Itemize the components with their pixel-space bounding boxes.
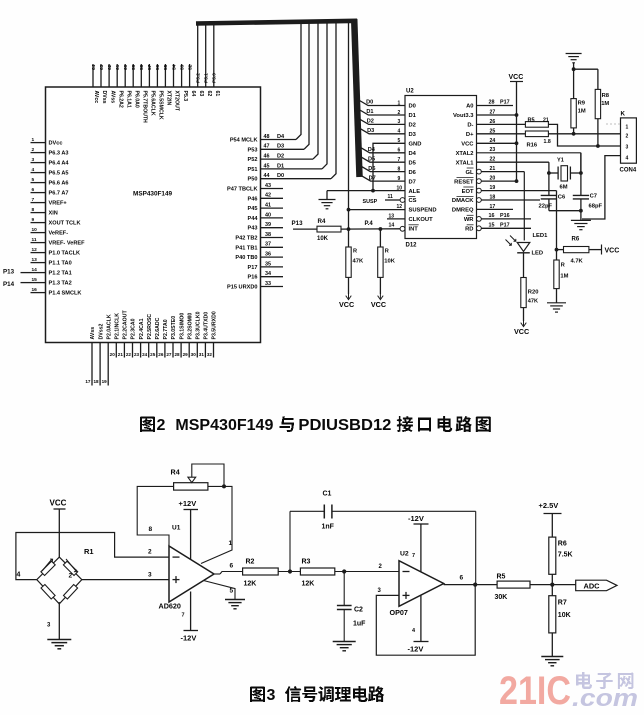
- svg-text:P1.0 TACLK: P1.0 TACLK: [49, 251, 81, 257]
- resistor R8 1M: [595, 89, 610, 118]
- svg-text:3: 3: [626, 145, 629, 151]
- svg-text:U2: U2: [400, 551, 409, 558]
- svg-text:MSP430F149: MSP430F149: [133, 191, 173, 198]
- svg-text:1nF: 1nF: [322, 524, 335, 531]
- svg-text:AVss: AVss: [90, 327, 96, 340]
- svg-text:6: 6: [32, 187, 35, 193]
- resistor R9 1M: [571, 99, 586, 128]
- resistor 47K pull: [346, 247, 364, 294]
- svg-text:54: 54: [171, 64, 177, 70]
- svg-text:VREF+: VREF+: [49, 201, 68, 207]
- svg-text:21: 21: [490, 166, 496, 172]
- svg-text:10K: 10K: [384, 259, 395, 265]
- svg-text:D+: D+: [466, 132, 474, 138]
- svg-text:R4: R4: [318, 218, 326, 225]
- svg-text:P52: P52: [248, 157, 258, 163]
- svg-text:5: 5: [398, 138, 401, 144]
- power -12V OP07 bottom: [408, 595, 429, 654]
- svg-text:P17: P17: [500, 223, 510, 229]
- svg-text:2: 2: [32, 147, 35, 153]
- power VCC right of R6: [589, 245, 619, 255]
- svg-text:R9: R9: [578, 101, 586, 107]
- potentiometer R4 gain: [171, 464, 227, 490]
- node P14 label left margin: [3, 281, 31, 288]
- svg-text:22: 22: [490, 157, 496, 163]
- wire bridge bottom to ground: [58, 602, 60, 639]
- svg-text:18: 18: [490, 195, 496, 201]
- capacitor C7 68pF: [573, 153, 603, 211]
- svg-text:13: 13: [32, 257, 38, 263]
- svg-text:P42 TB2: P42 TB2: [235, 236, 257, 242]
- U2 data stubs D0-D7 from bus: [356, 99, 405, 182]
- ground top right: [566, 54, 582, 70]
- svg-text:AVcc: AVcc: [93, 91, 99, 104]
- power VCC below 10K: [371, 294, 386, 309]
- svg-text:13: 13: [389, 213, 395, 219]
- U2 INT pin bubble: [400, 226, 405, 231]
- svg-text:D2: D2: [367, 119, 374, 125]
- svg-text:P2.4CA1: P2.4CA1: [139, 318, 145, 339]
- svg-text:WR: WR: [464, 217, 474, 223]
- svg-text:P54 MCLK: P54 MCLK: [230, 138, 258, 144]
- svg-text:DMREQ: DMREQ: [452, 208, 474, 214]
- svg-text:1.8: 1.8: [544, 139, 551, 145]
- svg-text:41: 41: [265, 203, 271, 209]
- resistor 10K pull: [378, 229, 396, 294]
- svg-text:VCC: VCC: [605, 248, 620, 255]
- svg-text:VCC: VCC: [371, 300, 386, 309]
- svg-text:D5: D5: [409, 160, 417, 166]
- caption figure 2: [140, 416, 491, 434]
- svg-text:24: 24: [142, 352, 148, 357]
- svg-text:EOT: EOT: [462, 189, 474, 195]
- svg-text:GND: GND: [409, 142, 422, 148]
- svg-text:6: 6: [398, 148, 401, 154]
- svg-text:K: K: [621, 111, 626, 118]
- svg-text:D7: D7: [369, 175, 376, 181]
- svg-text:R6: R6: [572, 237, 580, 243]
- svg-text:P45: P45: [248, 206, 258, 212]
- svg-text:P5.1: P5.1: [204, 73, 210, 83]
- svg-text:23: 23: [490, 147, 496, 153]
- power VCC below 47K: [339, 294, 354, 309]
- svg-text:14: 14: [32, 267, 38, 273]
- ground at ALE: [319, 200, 336, 209]
- svg-text:P6.2A2: P6.2A2: [117, 91, 123, 108]
- svg-text:2: 2: [398, 110, 401, 116]
- svg-text:A0: A0: [466, 104, 473, 110]
- U1 right pin name labels: [227, 138, 258, 291]
- svg-text:R16: R16: [527, 143, 538, 149]
- svg-text:ALE: ALE: [409, 189, 421, 195]
- svg-text:P5.3: P5.3: [182, 91, 188, 102]
- LED D1: [506, 233, 549, 257]
- svg-text:D3: D3: [367, 128, 374, 134]
- svg-text:21: 21: [118, 352, 124, 357]
- ground AD620 pin5: [225, 600, 245, 609]
- svg-text:D5: D5: [368, 156, 375, 162]
- svg-text:16: 16: [489, 213, 495, 219]
- svg-text:P6.7 A7: P6.7 A7: [49, 191, 69, 197]
- svg-text:62: 62: [107, 64, 113, 70]
- caption figure 3: [250, 686, 384, 704]
- resistor R16 series: [525, 131, 550, 149]
- svg-text:D3: D3: [277, 144, 284, 150]
- power -12V OP07 top: [408, 514, 429, 572]
- svg-text:-12V: -12V: [408, 645, 424, 654]
- svg-text:P2.1INCLK: P2.1INCLK: [115, 313, 121, 340]
- svg-text:22: 22: [126, 352, 132, 357]
- svg-text:19: 19: [490, 185, 496, 191]
- wire D+ row: [477, 128, 526, 134]
- svg-text:P51: P51: [248, 167, 258, 173]
- svg-text:17: 17: [490, 204, 496, 210]
- svg-text:VCC: VCC: [461, 142, 474, 148]
- svg-text:4: 4: [32, 167, 35, 173]
- U1 top pins with numbers: [91, 23, 214, 87]
- svg-text:R8: R8: [602, 93, 610, 99]
- svg-text:D6: D6: [368, 166, 375, 172]
- svg-text:64: 64: [190, 91, 196, 97]
- svg-text:-12V: -12V: [408, 514, 424, 523]
- svg-text:P1.2 TA1: P1.2 TA1: [49, 271, 72, 277]
- svg-text:26: 26: [490, 119, 496, 125]
- svg-text:P3.2SOMI0: P3.2SOMI0: [187, 313, 193, 340]
- svg-text:68pF: 68pF: [589, 204, 603, 210]
- svg-text:VCC: VCC: [50, 499, 67, 508]
- U1 right pins stubs 43-33: [261, 183, 284, 287]
- svg-text:P5.0: P5.0: [212, 73, 218, 83]
- svg-text:R6: R6: [558, 541, 567, 548]
- U1 left pin name labels: [49, 141, 86, 297]
- svg-text:9: 9: [398, 176, 401, 182]
- svg-text:RD: RD: [465, 227, 473, 233]
- wire bridge right to AD620 pin3: [82, 579, 169, 581]
- svg-text:26: 26: [158, 352, 164, 357]
- U1 top tall pin labels: [196, 73, 218, 83]
- svg-text:D1: D1: [366, 109, 373, 115]
- wire R9 to D+ line: [573, 128, 575, 134]
- svg-text:DMACK: DMACK: [452, 198, 474, 204]
- svg-text:XT2OUT: XT2OUT: [174, 91, 180, 112]
- wire Vout3.3 row: [477, 110, 519, 117]
- svg-text:14: 14: [389, 222, 395, 228]
- svg-text:P17: P17: [500, 100, 510, 106]
- usb chip U2 PDIUSBD12: [405, 89, 477, 249]
- svg-text:DVcc: DVcc: [49, 141, 63, 147]
- bus vertical thick band: [354, 19, 359, 177]
- svg-text:30: 30: [191, 352, 197, 357]
- svg-text:P6.3 A3: P6.3 A3: [49, 151, 69, 157]
- wire R2 to R3 junction: [278, 569, 300, 573]
- svg-text:8: 8: [32, 207, 35, 213]
- svg-text:58: 58: [139, 64, 145, 70]
- resistor R6 4.7K: [555, 237, 589, 265]
- svg-text:48: 48: [264, 134, 270, 140]
- svg-text:36: 36: [265, 252, 271, 258]
- svg-text:11: 11: [388, 194, 394, 200]
- svg-text:XOUT TCLK: XOUT TCLK: [49, 221, 81, 227]
- svg-text:35: 35: [265, 261, 271, 267]
- wire EOT row to R6 node: [477, 185, 557, 250]
- wire OP07 output: [444, 575, 497, 587]
- wire GL row to LED: [477, 166, 525, 240]
- wire SUSPEND row: [349, 209, 406, 211]
- svg-text:U1: U1: [172, 525, 181, 532]
- svg-text:30K: 30K: [495, 594, 508, 601]
- svg-text:46: 46: [264, 154, 270, 160]
- svg-text:40: 40: [265, 212, 271, 218]
- svg-text:38: 38: [265, 232, 271, 238]
- svg-text:P.4: P.4: [365, 221, 374, 227]
- svg-text:P15 URXD0: P15 URXD0: [227, 285, 257, 291]
- wire D- to K pin3: [548, 124, 620, 146]
- resistor R6 7.5K: [549, 537, 573, 585]
- wire D- row: [477, 119, 526, 125]
- svg-text:43: 43: [265, 183, 271, 189]
- svg-text:R3: R3: [302, 559, 311, 566]
- wire ALE row: [327, 185, 405, 199]
- svg-text:R2: R2: [246, 559, 255, 566]
- svg-text:23: 23: [134, 352, 140, 357]
- svg-text:6M: 6M: [560, 185, 568, 191]
- ground below C2: [333, 642, 356, 651]
- wire DMACK row: [477, 195, 541, 203]
- connector K CON4: [620, 111, 637, 174]
- wire R4 to INT pin: [341, 221, 400, 231]
- svg-text:2: 2: [626, 134, 629, 140]
- svg-text:P41 TB1: P41 TB1: [235, 245, 257, 251]
- svg-text:47: 47: [264, 144, 270, 150]
- svg-text:RESET: RESET: [454, 179, 474, 185]
- svg-text:7: 7: [32, 197, 35, 203]
- svg-text:P5.2: P5.2: [196, 73, 202, 83]
- wire pin5 to ground: [204, 581, 236, 600]
- svg-text:20: 20: [490, 176, 496, 182]
- resistor R4 10K: [317, 218, 341, 242]
- svg-text:C6: C6: [558, 195, 566, 201]
- svg-text:P2.0ACLK: P2.0ACLK: [106, 314, 112, 339]
- power -12V AD620: [181, 592, 199, 643]
- crystal Y1 6M: [547, 158, 583, 191]
- wire U2 GND pin to ground rail: [371, 138, 405, 192]
- U2 right pin name labels: [452, 104, 474, 233]
- svg-text:1M: 1M: [601, 101, 609, 107]
- svg-text:1: 1: [32, 137, 35, 143]
- svg-text:D6: D6: [409, 170, 417, 176]
- svg-text:D12: D12: [406, 243, 418, 249]
- svg-text:D0: D0: [277, 173, 284, 179]
- wire P13 to R4: [293, 228, 317, 230]
- svg-text:D2: D2: [409, 123, 416, 129]
- bus horizontal top: [196, 21, 357, 24]
- svg-text:10K: 10K: [317, 236, 329, 242]
- svg-text:61: 61: [115, 64, 121, 70]
- svg-text:7.5K: 7.5K: [558, 552, 573, 559]
- svg-text:4.7K: 4.7K: [571, 259, 584, 265]
- svg-text:PDIUSBD12: PDIUSBD12: [298, 417, 391, 434]
- svg-text:22pF: 22pF: [539, 204, 553, 210]
- svg-text:28: 28: [489, 100, 495, 106]
- svg-text:VCC: VCC: [339, 300, 354, 309]
- svg-text:CS: CS: [409, 198, 417, 204]
- svg-text:D0: D0: [366, 100, 373, 106]
- wire R3 to OP07 pin2: [335, 564, 399, 574]
- svg-text:2: 2: [148, 549, 152, 556]
- svg-text:U2: U2: [406, 89, 414, 95]
- svg-text:D2: D2: [277, 154, 284, 160]
- svg-text:AVss: AVss: [109, 91, 115, 104]
- wire K pin4 down: [582, 156, 621, 219]
- svg-text:SUSPEND: SUSPEND: [409, 208, 437, 214]
- svg-text:P2.2CAOUT: P2.2CAOUT: [123, 310, 129, 340]
- wire R8 to D- line: [596, 119, 600, 148]
- svg-text:61: 61: [214, 91, 220, 97]
- svg-text:11: 11: [32, 237, 37, 243]
- svg-text:33: 33: [265, 281, 271, 287]
- svg-text:D1: D1: [409, 113, 417, 119]
- svg-text:P1.1 TA0: P1.1 TA0: [49, 261, 72, 267]
- node ADC flag: [576, 580, 617, 591]
- svg-text:R: R: [353, 249, 357, 255]
- svg-text:42: 42: [265, 193, 271, 199]
- svg-text:VeREF-: VeREF-: [49, 231, 69, 237]
- svg-text:63: 63: [99, 64, 105, 70]
- svg-text:P16: P16: [248, 275, 258, 281]
- svg-text:47K: 47K: [528, 299, 538, 305]
- svg-text:P6.6 A6: P6.6 A6: [49, 181, 69, 187]
- svg-text:P44: P44: [248, 216, 259, 222]
- svg-text:17: 17: [85, 379, 91, 384]
- svg-text:64: 64: [91, 64, 97, 70]
- svg-text:P1.4 SMCLK: P1.4 SMCLK: [49, 291, 82, 297]
- svg-text:44: 44: [264, 173, 270, 179]
- svg-text:R1: R1: [84, 547, 94, 556]
- svg-text:R4: R4: [171, 468, 180, 477]
- svg-text:27: 27: [490, 110, 496, 116]
- svg-text:VREF- VeREF: VREF- VeREF: [49, 241, 86, 247]
- svg-text:1M: 1M: [578, 109, 586, 115]
- svg-text:R5: R5: [497, 574, 506, 581]
- U2 left pin name labels: [409, 104, 437, 233]
- svg-text:4: 4: [626, 156, 629, 162]
- ground below R7: [547, 303, 566, 312]
- resistor R3 12K: [300, 559, 334, 588]
- U1 data bus wires D4-D0 to bus verticals: [261, 23, 337, 179]
- svg-text:P6.5 A5: P6.5 A5: [49, 171, 69, 177]
- svg-text:P3.5URXD0: P3.5URXD0: [212, 311, 218, 339]
- resistor R7 10K: [549, 585, 571, 657]
- svg-text:.com: .com: [572, 685, 638, 712]
- wire XTAL2 row: [477, 147, 581, 173]
- svg-text:P13: P13: [3, 269, 15, 276]
- svg-text:3: 3: [267, 687, 276, 704]
- resistor R20 47K: [521, 278, 539, 322]
- svg-text:C7: C7: [590, 194, 597, 200]
- svg-text:DVss: DVss: [101, 91, 107, 104]
- ground below C7: [571, 220, 591, 229]
- svg-text:P17: P17: [248, 265, 258, 271]
- resistor R7 1M: [554, 250, 569, 303]
- U1 left pins 1-16: [31, 137, 46, 293]
- svg-text:VCC: VCC: [509, 74, 524, 81]
- svg-text:1: 1: [626, 125, 629, 131]
- svg-text:39: 39: [265, 222, 271, 228]
- wire xtal ground rail: [549, 209, 583, 221]
- wire OP07 pin3 loop: [376, 585, 475, 656]
- svg-text:R: R: [561, 263, 565, 269]
- svg-text:P2.3CA0: P2.3CA0: [131, 318, 137, 339]
- svg-text:P47 TBCLK: P47 TBCLK: [227, 187, 257, 193]
- watermark 21IC: [499, 669, 638, 713]
- svg-text:7: 7: [398, 157, 401, 163]
- wire DMREQ stub: [477, 204, 514, 210]
- svg-text:31: 31: [199, 352, 205, 357]
- svg-text:57: 57: [147, 64, 153, 70]
- svg-text:OP07: OP07: [390, 608, 408, 617]
- svg-text:8: 8: [398, 166, 401, 172]
- svg-text:-12V: -12V: [181, 634, 197, 643]
- svg-text:R: R: [385, 249, 389, 255]
- svg-text:4: 4: [398, 129, 401, 135]
- svg-text:59: 59: [131, 64, 137, 70]
- wire LED to R20: [523, 253, 525, 278]
- wire vertical bus tap to R4 node: [347, 22, 351, 247]
- svg-text:+12V: +12V: [179, 499, 197, 508]
- wire VCC row: [477, 138, 519, 145]
- svg-text:P53: P53: [248, 147, 258, 153]
- wire WR row to P16: [477, 213, 532, 221]
- svg-text:1: 1: [229, 540, 233, 547]
- svg-text:LED1: LED1: [533, 233, 549, 239]
- svg-text:3: 3: [398, 119, 401, 125]
- svg-text:55: 55: [163, 64, 169, 70]
- svg-text:6: 6: [230, 563, 234, 570]
- svg-text:C1: C1: [323, 491, 332, 498]
- svg-text:8: 8: [149, 526, 153, 533]
- wire C1 feedback top: [290, 511, 476, 584]
- svg-text:15: 15: [32, 277, 38, 283]
- svg-text:D4: D4: [368, 147, 376, 153]
- svg-text:25: 25: [150, 352, 156, 357]
- svg-text:R7: R7: [558, 600, 567, 607]
- wire CS row: [363, 194, 405, 205]
- svg-text:52: 52: [187, 64, 193, 70]
- svg-text:53: 53: [179, 64, 185, 70]
- U1 bottom pins with numbers: [85, 343, 213, 386]
- wire CLKOUT stub: [387, 213, 405, 219]
- svg-text:18: 18: [93, 379, 99, 384]
- power VCC top: [509, 74, 524, 181]
- svg-text:CON4: CON4: [620, 168, 637, 174]
- svg-text:1M: 1M: [560, 274, 568, 280]
- svg-text:10K: 10K: [558, 612, 571, 619]
- svg-text:10: 10: [32, 227, 38, 233]
- svg-text:D7: D7: [409, 179, 416, 185]
- svg-text:P6.0A0: P6.0A0: [133, 91, 139, 108]
- svg-text:2: 2: [157, 417, 166, 434]
- svg-text:D4: D4: [409, 151, 417, 157]
- wire bridge left loop to AD620 pin2: [16, 533, 169, 580]
- svg-text:60: 60: [123, 64, 129, 70]
- U1 bottom pin name labels (rotated): [90, 310, 218, 340]
- svg-text:7: 7: [182, 613, 185, 619]
- svg-text:5: 5: [230, 588, 234, 595]
- svg-text:P5.5SMCLK: P5.5SMCLK: [158, 91, 164, 120]
- svg-text:P5.6ACLK: P5.6ACLK: [150, 91, 156, 116]
- svg-text:XTAL2: XTAL2: [456, 151, 474, 157]
- svg-text:10: 10: [397, 185, 403, 191]
